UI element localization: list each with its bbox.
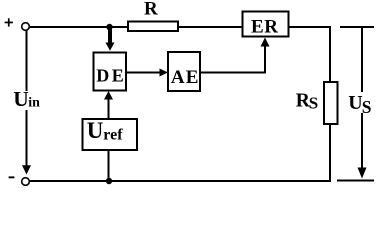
- svg-text:U: U: [348, 92, 362, 114]
- svg-text:in: in: [28, 96, 40, 111]
- svg-text:DE: DE: [96, 66, 126, 86]
- svg-text:S: S: [309, 94, 318, 113]
- svg-text:S: S: [362, 97, 372, 117]
- svg-text:U: U: [87, 118, 104, 143]
- svg-text:U: U: [13, 87, 29, 111]
- svg-text:ref: ref: [103, 127, 123, 144]
- svg-text:R: R: [144, 0, 158, 20]
- svg-text:AE: AE: [171, 67, 200, 88]
- svg-text:ER: ER: [251, 17, 279, 38]
